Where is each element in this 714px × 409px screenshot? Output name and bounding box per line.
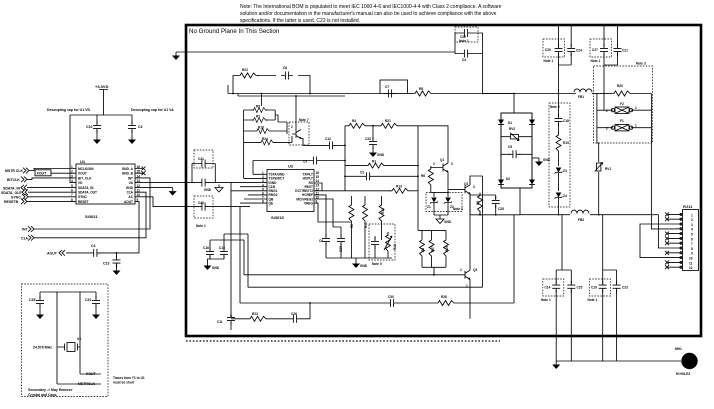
resistor R23 xyxy=(247,312,269,321)
capacitor C2 xyxy=(198,203,210,211)
wire right cluster verticals xyxy=(345,126,418,231)
wire TIP line xyxy=(514,93,576,95)
svg-text:X1: X1 xyxy=(77,337,81,341)
capacitor C13 xyxy=(103,252,121,268)
svg-text:R19: R19 xyxy=(563,141,569,145)
svg-text:D2: D2 xyxy=(506,177,510,181)
svg-text:C16: C16 xyxy=(203,246,209,250)
resistor R3 xyxy=(470,193,483,215)
resistors R9 R17 R15 xyxy=(420,230,426,267)
svg-text:C24: C24 xyxy=(576,49,582,53)
transistor Q1 xyxy=(431,156,453,187)
svg-text:C13: C13 xyxy=(103,262,109,266)
svg-text:R21: R21 xyxy=(385,119,391,123)
isolation caps C19/C23 bottom xyxy=(588,215,629,361)
svg-text:2: 2 xyxy=(691,218,693,222)
svg-text:VA: VA xyxy=(129,181,134,185)
svg-text:RV1: RV1 xyxy=(605,167,611,171)
svg-text:M HOLE3: M HOLE3 xyxy=(676,372,690,376)
rails xyxy=(244,275,483,287)
dotted line under box xyxy=(186,340,500,342)
svg-text:C25: C25 xyxy=(577,286,583,290)
resistor R13 xyxy=(314,183,418,193)
svg-text:R2: R2 xyxy=(350,224,354,228)
svg-text:2: 2 xyxy=(433,162,435,166)
svg-text:Si3015: Si3015 xyxy=(271,215,284,220)
svg-text:MSTR CLK: MSTR CLK xyxy=(5,169,24,173)
U1 right pin stubs / nc xyxy=(135,167,146,176)
svg-text:C2: C2 xyxy=(360,171,364,175)
svg-text:R17: R17 xyxy=(431,246,435,252)
svg-text:Si3021: Si3021 xyxy=(85,214,98,219)
transistor Q3 xyxy=(460,252,477,319)
wire RING line xyxy=(520,214,658,216)
svg-text:Note 1: Note 1 xyxy=(541,298,551,302)
wire chassis bottom xyxy=(556,360,681,362)
svg-text:GND: GND xyxy=(444,220,452,224)
svg-text:2: 2 xyxy=(291,125,293,129)
wire ring to rj11 xyxy=(658,215,676,248)
diode D1 xyxy=(498,120,535,126)
svg-text:Note 3: Note 3 xyxy=(636,62,646,66)
ground xyxy=(36,311,44,319)
note3 dashed box xyxy=(594,62,653,144)
U2 left pin stubs xyxy=(231,174,267,203)
svg-text:FB2: FB2 xyxy=(578,218,584,222)
svg-text:AOUT: AOUT xyxy=(47,252,58,256)
resistor R7 xyxy=(251,118,268,123)
svg-text:SDATA_OUT: SDATA_OUT xyxy=(1,191,23,195)
svg-text:C4: C4 xyxy=(91,244,96,248)
capacitor C4 xyxy=(66,244,101,257)
wire tip vertical to bridge xyxy=(483,94,514,114)
svg-text:C28: C28 xyxy=(498,207,504,211)
svg-text:XOUT: XOUT xyxy=(78,172,87,176)
node INT xyxy=(22,226,34,232)
svg-text:Decoupling cap for U1 VD: Decoupling cap for U1 VD xyxy=(47,108,90,112)
svg-text:C26: C26 xyxy=(291,312,297,316)
resistor network R5 R7 R18 R24 xyxy=(244,105,292,179)
svg-text:12: 12 xyxy=(689,266,693,270)
svg-text:C36: C36 xyxy=(339,246,343,252)
isolation caps C20/C24 xyxy=(543,25,582,94)
wire crystal top xyxy=(40,292,96,384)
svg-text:4: 4 xyxy=(71,179,73,183)
capacitor C2b xyxy=(345,171,418,181)
note text bottom left xyxy=(28,388,73,397)
svg-text:VD: VD xyxy=(78,181,83,185)
svg-text:GND: GND xyxy=(212,266,220,270)
svg-text:SDATA_IN: SDATA_IN xyxy=(3,186,20,190)
wire u2 bottom to caps xyxy=(314,195,351,227)
capacitor C5 xyxy=(501,145,532,158)
svg-text:SDATA_IN: SDATA_IN xyxy=(78,186,94,190)
svg-text:2: 2 xyxy=(460,268,462,272)
svg-text:F1: F1 xyxy=(620,119,624,123)
svg-text:Z3: Z3 xyxy=(563,169,567,173)
svg-text:R4: R4 xyxy=(352,119,356,123)
resistor R4 xyxy=(345,119,371,128)
ground xyxy=(128,136,136,144)
ground xyxy=(532,158,551,166)
svg-text:AOUT: AOUT xyxy=(124,200,133,204)
svg-text:C3: C3 xyxy=(138,125,143,129)
svg-text:C11: C11 xyxy=(217,320,223,324)
dashed option C40 xyxy=(194,196,213,218)
resistor R1 xyxy=(345,160,418,169)
svg-text:Note 4: Note 4 xyxy=(453,207,463,211)
capacitor C15 xyxy=(219,234,248,259)
svg-text:specifications. If the latter: specifications. If the latter is used, C… xyxy=(240,18,360,24)
svg-text:1: 1 xyxy=(466,284,468,288)
capacitor C33 xyxy=(365,126,385,157)
isolation caps C14/C25 bottom xyxy=(541,215,583,361)
transistor Q2 xyxy=(461,176,483,195)
svg-text:Decoupling cap for U1 VA: Decoupling cap for U1 VA xyxy=(131,108,174,112)
capacitor C22 optional dashed xyxy=(455,27,478,43)
resistor R18 xyxy=(255,129,272,134)
capacitor C10 xyxy=(86,115,101,136)
svg-text:C6: C6 xyxy=(319,239,323,243)
svg-text:GND: GND xyxy=(543,158,551,162)
ground xyxy=(434,215,452,224)
wire B C2 line xyxy=(135,197,250,207)
svg-text:2: 2 xyxy=(606,109,608,113)
resistor R24 xyxy=(259,140,276,145)
node BITCLK xyxy=(7,177,76,183)
resistors R2 R11 verticals xyxy=(349,196,354,258)
svg-text:2: 2 xyxy=(606,127,608,131)
fuse F1 xyxy=(597,110,652,131)
node XOUT boxed label xyxy=(35,170,76,176)
node SYNC xyxy=(11,194,76,200)
svg-text:Note 1: Note 1 xyxy=(544,59,554,63)
svg-text:C21: C21 xyxy=(622,49,628,53)
resistor R5 xyxy=(251,108,268,113)
svg-text:F2: F2 xyxy=(620,102,624,106)
capacitor C30 xyxy=(386,295,398,307)
diode D2 xyxy=(498,177,535,185)
svg-text:C35: C35 xyxy=(29,298,35,302)
varistor RV1 xyxy=(595,143,612,215)
svg-text:R24: R24 xyxy=(262,137,268,141)
ground xyxy=(92,311,100,319)
wire interface verticals xyxy=(231,183,248,316)
capacitor C35 xyxy=(29,292,44,311)
capacitor C18 xyxy=(555,94,570,133)
svg-text:Z1: Z1 xyxy=(427,205,431,209)
svg-text:GND: GND xyxy=(204,188,212,192)
svg-text:Note 1: Note 1 xyxy=(591,59,601,63)
capacitor C16 xyxy=(203,240,244,259)
isolation caps C27/C21 xyxy=(590,25,628,110)
wire hold circuit xyxy=(240,215,514,303)
wire q4 collector top xyxy=(238,95,345,97)
ferrite FB1 xyxy=(574,89,597,99)
svg-text:R26: R26 xyxy=(441,295,447,299)
svg-text:R8: R8 xyxy=(419,87,423,91)
svg-text:GND: GND xyxy=(126,186,134,190)
note text traces xyxy=(113,376,145,385)
capacitor C8 xyxy=(281,66,293,80)
varistor RV2 xyxy=(501,127,532,141)
svg-text:C18: C18 xyxy=(563,119,569,123)
dashed box note5 with R10 xyxy=(369,224,397,266)
svg-text:R15: R15 xyxy=(445,246,449,252)
zener Z3 xyxy=(555,168,567,192)
ground open xyxy=(204,185,223,193)
svg-text:Note 5: Note 5 xyxy=(372,262,382,266)
svg-text:RESETB: RESETB xyxy=(4,200,19,204)
svg-text:R7: R7 xyxy=(256,115,260,119)
svg-text:11: 11 xyxy=(689,261,693,265)
svg-text:Note: The International BOM i: Note: The International BOM is populated… xyxy=(240,4,502,10)
resistor R22 xyxy=(237,68,259,78)
svg-text:C23: C23 xyxy=(622,286,628,290)
svg-text:24.576 MHz: 24.576 MHz xyxy=(33,346,52,350)
capacitor C28 xyxy=(480,195,504,215)
svg-text:C20: C20 xyxy=(545,48,551,52)
svg-text:R18: R18 xyxy=(258,126,264,130)
svg-text:C40: C40 xyxy=(198,201,204,205)
svg-text:R11: R11 xyxy=(364,222,368,228)
svg-text:must be short: must be short xyxy=(113,381,135,385)
svg-text:R10: R10 xyxy=(393,244,397,250)
svg-text:U1: U1 xyxy=(80,159,86,164)
node SDATA_IN xyxy=(3,185,76,191)
svg-text:9: 9 xyxy=(691,252,693,256)
svg-text:Note 1: Note 1 xyxy=(459,39,469,43)
svg-text:Secondary -> May Remove: Secondary -> May Remove xyxy=(28,388,73,392)
resistor R6 xyxy=(421,166,433,193)
svg-text:R22: R22 xyxy=(242,68,248,72)
svg-text:Q1: Q1 xyxy=(440,158,444,162)
wire rx top xyxy=(228,93,380,95)
resistor R20 xyxy=(597,84,652,96)
svg-text:XOUT: XOUT xyxy=(37,172,48,176)
svg-text:3: 3 xyxy=(451,162,453,166)
ferrite FB2 xyxy=(571,210,589,222)
capacitor C36 xyxy=(337,227,345,258)
svg-text:8: 8 xyxy=(691,247,693,251)
node XOUT xyxy=(80,372,101,376)
power +3.3VD xyxy=(95,84,109,115)
node C1A xyxy=(21,235,34,241)
node SDATA_OUT xyxy=(1,189,76,195)
svg-text:SYNC: SYNC xyxy=(11,195,21,199)
svg-text:INT: INT xyxy=(22,228,29,232)
node RESETB xyxy=(4,199,76,205)
svg-text:C1A: C1A xyxy=(21,237,28,241)
ground bar xyxy=(326,258,392,260)
svg-text:R6: R6 xyxy=(421,174,425,178)
wire ring bottom joint xyxy=(470,176,520,287)
svg-text:C1A: C1A xyxy=(127,191,134,195)
svg-text:C19: C19 xyxy=(591,286,597,290)
svg-text:C4: C4 xyxy=(462,58,466,62)
svg-text:C31: C31 xyxy=(85,298,91,302)
svg-text:R20: R20 xyxy=(617,84,623,88)
capacitor C31 xyxy=(85,292,100,311)
svg-text:3: 3 xyxy=(691,223,693,227)
ground xyxy=(552,361,560,369)
svg-text:GND_B: GND_B xyxy=(122,172,134,176)
node AOUT xyxy=(47,250,65,256)
wire left vertical feed xyxy=(228,85,262,106)
svg-text:C14: C14 xyxy=(545,286,551,290)
resistor R21 xyxy=(371,119,418,128)
svg-text:SYNC: SYNC xyxy=(78,195,88,199)
svg-text:1: 1 xyxy=(691,213,693,217)
capacitor C11 xyxy=(217,313,235,330)
svg-text:7: 7 xyxy=(691,242,693,246)
note2 dashed box xyxy=(549,103,570,207)
svg-text:Note 7: Note 7 xyxy=(299,118,309,122)
svg-text:RV2: RV2 xyxy=(509,127,515,131)
svg-text:1: 1 xyxy=(635,124,637,128)
wire INT from pin14 xyxy=(34,178,150,229)
svg-text:10: 10 xyxy=(689,257,693,261)
zener Z4 xyxy=(555,193,567,215)
resistor R12 xyxy=(379,196,385,240)
node MSTRCLK xyxy=(57,382,101,386)
svg-text:MH1: MH1 xyxy=(675,347,682,351)
op-amp U1 xyxy=(71,159,140,219)
ground xyxy=(204,259,220,270)
svg-text:C12: C12 xyxy=(325,137,331,141)
svg-text:C41: C41 xyxy=(198,157,204,161)
wire tip to rj11 xyxy=(651,128,676,229)
svg-text:R13: R13 xyxy=(396,185,402,189)
svg-text:solution and/or documentation: solution and/or documentation in the man… xyxy=(240,11,497,17)
wire R22 C8 loop xyxy=(233,76,310,94)
svg-text:C30: C30 xyxy=(388,295,394,299)
svg-text:Note 1: Note 1 xyxy=(588,298,598,302)
svg-text:Z4: Z4 xyxy=(563,194,567,198)
line-side IC U2 xyxy=(231,164,319,221)
capacitor C26 xyxy=(289,312,301,323)
svg-text:Note 1: Note 1 xyxy=(196,224,206,228)
svg-text:AC: AC xyxy=(128,195,133,199)
resistor R19 xyxy=(556,132,569,166)
svg-text:U2: U2 xyxy=(288,164,294,169)
svg-text:1: 1 xyxy=(635,106,637,110)
ground xyxy=(93,136,101,144)
svg-text:FB1: FB1 xyxy=(578,95,584,99)
svg-text:C33: C33 xyxy=(365,137,371,141)
svg-text:RESET: RESET xyxy=(78,200,89,204)
svg-text:GND: GND xyxy=(377,153,385,157)
svg-text:QE: QE xyxy=(269,201,274,205)
capacitor C6 xyxy=(319,227,330,258)
svg-text:R23: R23 xyxy=(252,312,258,316)
svg-text:C5: C5 xyxy=(508,145,512,149)
connector RJ11 xyxy=(640,204,699,271)
wire bridge bottom xyxy=(519,188,521,215)
wire q1 node xyxy=(418,126,461,193)
svg-text:Crystal and Caps: Crystal and Caps xyxy=(28,393,57,397)
ground xyxy=(169,188,177,196)
wire A C1A line xyxy=(135,164,267,183)
svg-text:D1: D1 xyxy=(508,121,512,125)
wire q2-q3 xyxy=(469,193,471,252)
fuse F2 xyxy=(597,94,652,114)
no-ground-plane box xyxy=(186,25,701,336)
wire C1A from pin11 xyxy=(34,192,146,238)
svg-text:No Ground Plane In This Sectio: No Ground Plane In This Section xyxy=(189,28,280,35)
svg-text:Traces from Y1 to U1: Traces from Y1 to U1 xyxy=(113,376,145,380)
isolation cap C1 dashed option C41 xyxy=(192,150,215,168)
svg-text:RJ11: RJ11 xyxy=(683,204,693,209)
svg-text:C10: C10 xyxy=(86,125,92,129)
svg-text:BIT_CLK: BIT_CLK xyxy=(78,176,92,180)
wire c22/c4 group xyxy=(455,33,483,94)
svg-text:INT: INT xyxy=(128,176,133,180)
svg-text:+3.3VD: +3.3VD xyxy=(95,84,109,89)
capacitor C9 xyxy=(253,157,345,175)
ground xyxy=(113,267,121,275)
svg-text:5: 5 xyxy=(691,233,693,237)
capacitor C12 xyxy=(303,137,345,149)
svg-text:C7: C7 xyxy=(385,85,389,89)
svg-text:VREG: VREG xyxy=(304,201,314,205)
wire rc lowpass xyxy=(231,303,310,319)
resistor R8 xyxy=(408,87,515,96)
ground at box edge xyxy=(172,52,455,60)
mounting hole MH1 xyxy=(675,347,698,376)
crystal section dashed box xyxy=(22,284,109,397)
svg-text:GND: GND xyxy=(360,264,368,268)
svg-text:Q3: Q3 xyxy=(473,268,477,272)
svg-text:SDATA_OUT: SDATA_OUT xyxy=(78,191,97,195)
capacitor C4b xyxy=(460,50,472,63)
resistor R26 xyxy=(435,295,457,306)
svg-text:C8: C8 xyxy=(283,66,287,70)
svg-text:BITCLK: BITCLK xyxy=(7,178,20,182)
svg-text:Z2: Z2 xyxy=(450,205,454,209)
crystal X1 xyxy=(33,337,81,352)
wire GND pin12 xyxy=(135,187,173,189)
svg-text:C27: C27 xyxy=(592,48,598,52)
svg-text:3: 3 xyxy=(473,185,475,189)
svg-text:MCLK/XIN: MCLK/XIN xyxy=(78,167,94,171)
wire VD rail xyxy=(70,115,132,183)
capacitor C3 xyxy=(128,115,143,136)
svg-text:R5: R5 xyxy=(256,105,260,109)
svg-text:R9: R9 xyxy=(421,248,425,252)
note text top xyxy=(240,4,502,24)
svg-text:4: 4 xyxy=(691,228,693,232)
capacitor C1 xyxy=(198,179,210,187)
svg-text:GND_A: GND_A xyxy=(122,167,134,171)
svg-text:6: 6 xyxy=(691,237,693,241)
transistor Q4 in dashed box xyxy=(289,96,309,145)
node MSTR CLK xyxy=(5,168,76,174)
zener Z1 Z2 dashed box xyxy=(426,193,463,216)
capacitor C7 loop xyxy=(380,80,408,94)
wire AOUT pin9 xyxy=(98,201,140,253)
diode bridge D1 D2 RV2 C5 xyxy=(498,113,551,215)
